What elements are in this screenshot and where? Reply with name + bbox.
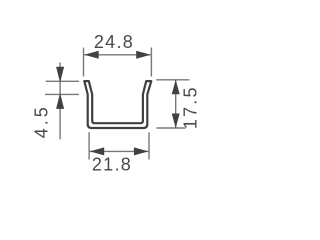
dimension 21.8: dimension line xyxy=(90,150,149,152)
dimension 21.8: right arrow xyxy=(134,147,149,155)
dimension 4.5: upper arrow (pointing down) xyxy=(56,67,64,83)
svg-text:21.8: 21.8 xyxy=(92,155,132,175)
dimension 21.8: left extension line xyxy=(88,132,90,159)
dimension 17.5: top extension line xyxy=(156,79,189,81)
svg-text:4.5: 4.5 xyxy=(32,104,52,138)
dimension 21.8: right extension line xyxy=(148,132,150,159)
dimension 17.5: top arrow xyxy=(172,80,180,95)
dimension 17.5: bottom extension line xyxy=(157,127,186,129)
dimension 4.5: dimension line xyxy=(59,63,61,140)
dimension 24.8: dimension line xyxy=(84,54,151,56)
dimension 24.8: right extension line xyxy=(150,48,152,77)
dimension 17.5: bottom arrow xyxy=(172,114,180,129)
svg-text:17.5: 17.5 xyxy=(181,85,201,129)
dimension 24.8: right arrow xyxy=(136,51,151,59)
dimension 21.8: left arrow xyxy=(90,147,105,155)
dimension 4.5: top extension line xyxy=(46,80,79,82)
dimension 4.5: bottom extension line xyxy=(45,93,79,95)
dimension 17.5: dimension line xyxy=(175,80,177,128)
U-channel profile cross-section outline xyxy=(84,81,151,128)
dimension 4.5: lower arrow (pointing up) xyxy=(56,93,64,109)
svg-text:24.8: 24.8 xyxy=(94,32,134,52)
dimension 24.8: left arrow xyxy=(84,51,99,59)
dimension 24.8: left extension line xyxy=(83,48,85,77)
